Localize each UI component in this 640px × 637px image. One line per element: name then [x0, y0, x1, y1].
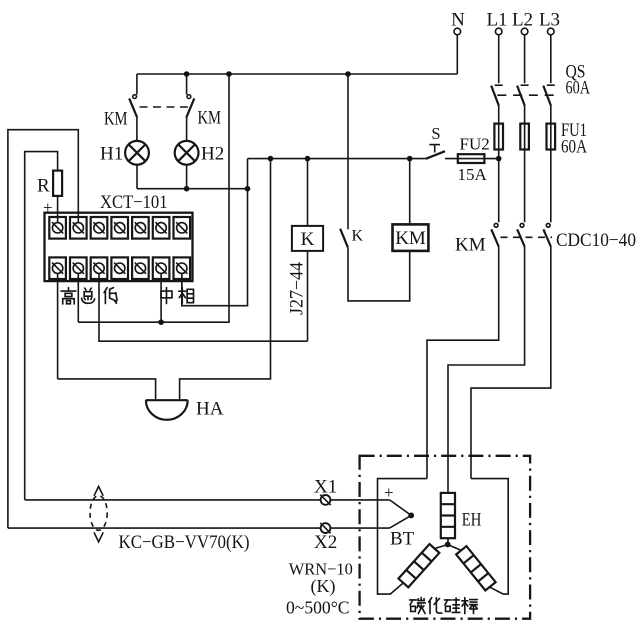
thermocouple BT: [390, 500, 415, 528]
wire lamp2 lower lead: [186, 118, 188, 141]
wire L2 lead: [524, 35, 526, 83]
switch QS pole 3: [543, 85, 555, 106]
node N terminal: [451, 10, 465, 35]
label Di low: [104, 288, 117, 304]
svg-text:X2: X2: [314, 532, 337, 553]
svg-text:+: +: [384, 483, 394, 502]
wire bell left feed from high terminal: [58, 379, 156, 400]
svg-text:K: K: [301, 229, 315, 250]
wire low terminal down: [99, 273, 308, 341]
cable marker ellipse: [90, 486, 107, 542]
junction dot lamp common to phase riser: [245, 186, 251, 192]
svg-text:KC−GB−VV70(K): KC−GB−VV70(K): [119, 532, 250, 553]
wire K coil top lead: [307, 159, 309, 226]
wire high terminal down: [57, 273, 59, 379]
fuse FU1 pole 3: [547, 124, 556, 150]
svg-text:XCT−101: XCT−101: [100, 192, 168, 213]
wire K contact to KM coil: [348, 247, 410, 301]
wire control line S: [248, 158, 426, 160]
svg-text:KM: KM: [395, 228, 426, 249]
svg-text:(K): (K): [311, 576, 336, 597]
label TanHuaGuiBang silicon carbide rods: [410, 597, 426, 613]
wire bell right feed riser: [180, 159, 271, 401]
contact KM main pole 1: [491, 223, 498, 246]
svg-text:L2: L2: [512, 10, 533, 31]
wire K coil bottom lead: [307, 251, 309, 341]
furnace enclosure dash-dot box: [360, 456, 530, 619]
svg-text:L1: L1: [486, 10, 507, 31]
wire phase B to furnace: [448, 247, 525, 493]
svg-text:60A: 60A: [566, 78, 591, 99]
svg-text:EH: EH: [462, 510, 482, 531]
junction dot K contact branch: [345, 71, 351, 77]
label Zong total: [82, 288, 95, 303]
terminal squares bottom row: [49, 257, 190, 279]
node L3 terminal: [539, 10, 560, 35]
QS linkage dashed: [497, 94, 554, 96]
switch QS pole 1: [491, 85, 503, 106]
svg-text:H2: H2: [201, 144, 224, 165]
switch S blade: [426, 151, 445, 159]
wire inner left loop to resistor: [25, 152, 58, 500]
wire lamp1 bottom lead: [136, 165, 138, 189]
junction dot lamp2 branch: [184, 71, 190, 77]
contactor coil KM: [393, 224, 429, 251]
node L2 terminal: [512, 10, 533, 35]
wire top neutral rail: [137, 73, 457, 75]
wire star point to left element: [434, 545, 447, 549]
switch QS pole 2: [517, 85, 529, 106]
wire X1 line: [25, 499, 390, 501]
wire L2 QS to fuse: [524, 106, 526, 222]
terminal block XCT-101 body: [45, 213, 193, 281]
terminal X1: [314, 477, 337, 506]
wire phase riser: [182, 159, 248, 306]
svg-text:K: K: [352, 228, 364, 245]
svg-text:0~500°C: 0~500°C: [286, 598, 350, 618]
relay coil K: [292, 226, 323, 251]
contact KM lamp2: [186, 95, 194, 118]
svg-text:CDC10−40: CDC10−40: [556, 230, 636, 251]
KM main contacts linkage dashed: [501, 236, 553, 238]
terminal squares top row: [49, 217, 190, 239]
contact KM main pole 3: [543, 223, 550, 246]
wire lamp2 bottom lead: [186, 165, 188, 189]
wire K contact upper lead: [347, 74, 349, 229]
wire outer left loop to terminal 2: [8, 130, 78, 528]
heating element left diagonal: [398, 544, 439, 587]
wire L1 lead: [498, 35, 500, 83]
wire lamp1 upper lead: [136, 74, 138, 95]
wire furnace left path: [378, 479, 428, 594]
svg-text:R: R: [37, 176, 50, 197]
KM lamp contacts linkage dashed: [140, 106, 189, 108]
svg-text:FU2: FU2: [460, 135, 490, 154]
wire KM coil top lead: [409, 159, 411, 225]
wire L1 QS to fuse: [498, 106, 500, 222]
fuse FU2: [458, 154, 485, 163]
svg-text:H1: H1: [100, 144, 123, 165]
wire L3 QS to fuse: [550, 106, 552, 222]
wire furnace right path: [471, 479, 508, 594]
switch S fixed bar: [429, 144, 440, 146]
lamp H2: [175, 141, 199, 165]
wire S to FU2: [445, 158, 499, 160]
svg-text:KM: KM: [455, 235, 486, 256]
svg-text:L3: L3: [539, 10, 560, 31]
wire L3 lead: [550, 35, 552, 83]
heating element EH vertical: [441, 493, 455, 538]
fuse FU1 pole 2: [520, 124, 529, 150]
terminal X2: [314, 523, 337, 553]
junction dot neutral riser: [226, 71, 232, 77]
wire resistor to terminal 1: [57, 196, 59, 223]
wire middle terminal down: [160, 273, 162, 322]
heating element right diagonal: [456, 546, 495, 590]
lamp H1: [125, 141, 149, 165]
resistor R: [53, 171, 62, 196]
svg-text:S: S: [431, 124, 440, 143]
label Zhong middle: [161, 288, 172, 304]
node L1 terminal: [486, 10, 507, 35]
svg-text:KM: KM: [104, 109, 128, 130]
svg-text:KM: KM: [198, 108, 222, 129]
wire total terminal down: [77, 273, 79, 322]
svg-text:BT: BT: [390, 529, 415, 550]
svg-text:15A: 15A: [458, 165, 488, 184]
wire lamp common: [137, 188, 248, 190]
wire phase C to furnace: [471, 247, 551, 479]
wire neutral riser to terminal row: [78, 74, 229, 322]
svg-text:HA: HA: [196, 399, 224, 420]
wire EH bottom to star point: [447, 538, 449, 544]
terminal screws bottom row: [52, 263, 187, 274]
contact KM lamp1: [129, 95, 137, 118]
wire star point to right element: [448, 545, 462, 551]
label Xiang phase: [179, 288, 194, 304]
junction dot KM coil branch: [407, 156, 413, 162]
junction dot bell branch: [268, 156, 274, 162]
svg-text:N: N: [451, 10, 465, 31]
terminal screws top row: [52, 222, 187, 233]
switch S contact tick: [434, 145, 436, 153]
fuse FU1 pole 1: [494, 124, 503, 150]
wire phase terminal down: [181, 273, 183, 306]
junction dot K coil branch: [305, 156, 311, 162]
svg-text:J27−44: J27−44: [288, 262, 308, 315]
svg-text:60A: 60A: [561, 137, 587, 158]
junction dot middle terminal wire: [158, 319, 164, 325]
contact KM main pole 2: [517, 223, 524, 246]
wire X2 line: [8, 527, 390, 529]
contact K normally open: [340, 229, 348, 248]
label Gao high: [61, 288, 76, 304]
junction dot star point: [445, 542, 451, 548]
junction dot FU2 line joins L1: [496, 156, 502, 162]
junction dot lamp2 bottom: [184, 186, 190, 192]
bell HA: [146, 400, 188, 420]
wire phase A to furnace: [427, 247, 499, 479]
wire lamp1 lower lead: [136, 118, 138, 141]
wire N lead down to top rail: [456, 35, 458, 74]
wire lamp2 upper lead: [186, 74, 188, 95]
